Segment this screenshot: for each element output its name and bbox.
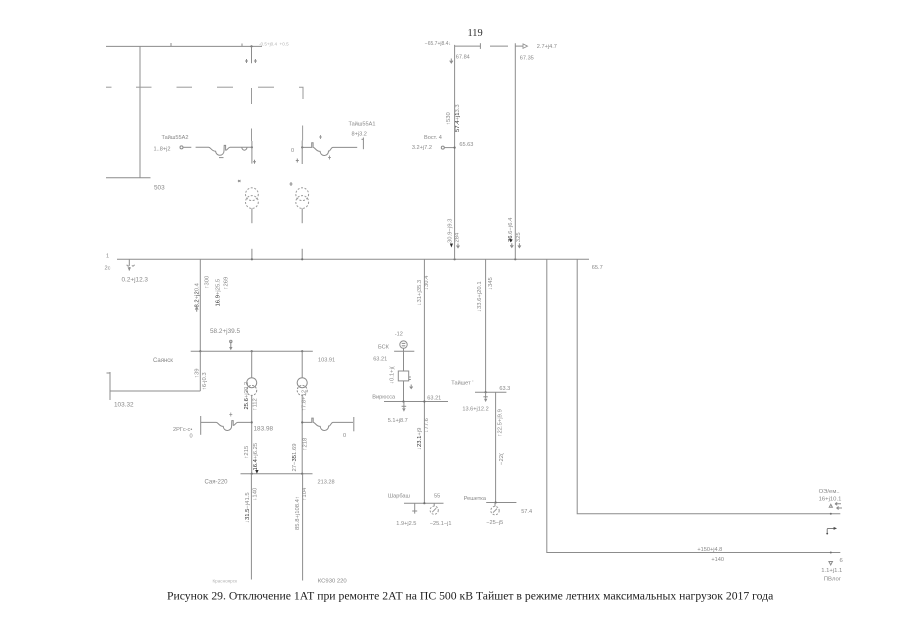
wire to Krasnoyarsk	[213, 474, 259, 584]
load on bus left	[122, 259, 149, 283]
svg-text:5.1+j8.7: 5.1+j8.7	[388, 418, 408, 424]
flow labels T2 lower	[292, 437, 308, 471]
wire 1AT middle	[251, 141, 256, 164]
svg-text:85.8+j108.4↑: 85.8+j108.4↑	[295, 496, 301, 530]
svg-text:Тайш55А2: Тайш55А2	[162, 134, 189, 141]
svg-text:103.32: 103.32	[114, 402, 134, 409]
reactor left 220	[201, 413, 251, 435]
svg-text:↑300: ↑300	[204, 275, 210, 288]
load 58.2+j39.5	[210, 328, 240, 350]
wire Vost top stub	[455, 43, 508, 49]
flow labels Sayansk line top	[195, 275, 230, 312]
svg-text:65.63: 65.63	[459, 142, 473, 148]
svg-text:Шарбаш: Шарбаш	[388, 493, 411, 499]
arrow down Vost	[450, 59, 453, 64]
svg-text:1..8+j2: 1..8+j2	[154, 147, 171, 153]
autotransformer 2AT (disconnected, dotted)	[296, 188, 309, 209]
bus Sharbash	[388, 493, 444, 504]
svg-text:↑39: ↑39	[195, 369, 201, 379]
bus Taishet	[451, 380, 510, 394]
line 119 right vertical	[514, 43, 516, 259]
svg-text:0: 0	[190, 434, 193, 440]
wire corner to 103.32	[107, 372, 201, 409]
line bus to Taishet	[477, 259, 494, 392]
svg-text:30.9−j9.3: 30.9−j9.3	[447, 218, 453, 243]
svg-text:0: 0	[343, 433, 346, 439]
junction left reactor	[251, 421, 253, 423]
svg-text:2РГс-с•: 2РГс-с•	[173, 427, 192, 433]
svg-text:Вирюсса: Вирюсса	[372, 394, 396, 400]
svg-text:6: 6	[840, 558, 844, 564]
svg-text:0: 0	[291, 148, 294, 154]
svg-text:8.2+j20.4: 8.2+j20.4	[195, 282, 201, 307]
generator Sharbash (disconnected)	[430, 503, 452, 527]
wire Taishet to Reshetka	[496, 392, 505, 502]
reactor Taish55A1	[291, 135, 363, 160]
load Viryussa	[388, 402, 408, 424]
svg-text:БСК: БСК	[378, 345, 390, 351]
line bus to Viryussa	[417, 259, 430, 503]
main 220kV bus	[105, 254, 590, 272]
flow labels T1 lower	[244, 442, 259, 470]
svg-text:↓345: ↓345	[488, 277, 494, 290]
svg-text:−22(: −22(	[499, 453, 505, 465]
svg-text:↑269: ↑269	[223, 277, 229, 290]
svg-text:↑215: ↑215	[244, 445, 250, 458]
svg-text:183.98: 183.98	[254, 426, 274, 433]
svg-text:213.28: 213.28	[318, 480, 335, 486]
flow labels Vost upper	[446, 104, 461, 132]
svg-text:↑218: ↑218	[303, 437, 309, 450]
wire Sayansk to corner	[195, 351, 209, 391]
reactor line Taish55A1 labels	[349, 121, 376, 138]
arrow symbol mid right	[826, 527, 837, 535]
arrow mark 1AT	[238, 180, 241, 182]
lower right labels	[821, 558, 843, 583]
junction right reactor	[301, 421, 303, 423]
svg-text:−25−j5: −25−j5	[486, 520, 503, 526]
flow labels Vost lower	[447, 218, 460, 248]
svg-text:Вост. 4: Вост. 4	[424, 135, 442, 141]
svg-text:↓31+j35.3: ↓31+j35.3	[417, 279, 423, 305]
bus Saya-220	[205, 470, 335, 486]
svg-text:↓30.4: ↓30.4	[424, 275, 430, 290]
svg-text:↑6-j0.3: ↑6-j0.3	[202, 372, 208, 390]
svg-text:↓0.1+j(: ↓0.1+j(	[390, 366, 396, 384]
wire right upper to OES	[577, 259, 840, 515]
svg-text:2c: 2c	[105, 266, 111, 272]
reactor Taish55A2	[180, 145, 251, 157]
wire to KS930	[295, 474, 347, 585]
svg-text:ОЭ/ем..: ОЭ/ем..	[819, 489, 840, 495]
svg-text:284: 284	[455, 232, 461, 243]
wire right lower	[547, 259, 841, 563]
svg-text:16.4+j6.25: 16.4+j6.25	[253, 442, 259, 470]
svg-text:16+j10.1: 16+j10.1	[819, 497, 842, 503]
wire T1 lower	[251, 395, 253, 473]
bus 503	[106, 177, 151, 179]
bus Reshetka	[464, 496, 532, 515]
transformer T1 circles	[247, 378, 257, 396]
svg-text:3.2+j7.2: 3.2+j7.2	[412, 145, 432, 151]
svg-text:↓31.5−j41.5: ↓31.5−j41.5	[245, 492, 251, 523]
svg-text:27−351.69: 27−351.69	[292, 443, 298, 471]
svg-text:КС930 220: КС930 220	[318, 579, 348, 585]
wire 2AT middle	[296, 141, 304, 165]
svg-text:57.4+j13.3: 57.4+j13.3	[455, 104, 461, 132]
svg-text:63.21: 63.21	[427, 395, 441, 401]
reactor 2RGs-s labels	[173, 427, 193, 440]
OES labels	[819, 489, 842, 510]
svg-text:↓140: ↓140	[252, 487, 258, 500]
svg-text:325: 325	[516, 232, 522, 243]
wire left vertical	[139, 46, 141, 177]
wire T2 lower	[301, 395, 303, 473]
arrow out top	[515, 44, 557, 62]
svg-text:Красноярск: Красноярск	[213, 579, 239, 584]
svg-text:↓23.1+j9: ↓23.1+j9	[417, 428, 423, 450]
svg-text:-0.5+j0.4 +0.5: -0.5+j0.4 +0.5	[259, 42, 289, 47]
svg-text:16.9+j25.5: 16.9+j25.5	[216, 278, 222, 306]
svg-text:↑104: ↑104	[302, 487, 308, 500]
wire 1AT dashed disconnected	[251, 88, 253, 141]
transformer branch left (Sayansk to Saya-220)	[244, 351, 259, 410]
load Sharbash	[396, 503, 417, 527]
svg-text:Рисунок 29. Отключение 1АТ при: Рисунок 29. Отключение 1АТ при ремонте 2…	[167, 590, 774, 603]
svg-text:2.7+j4.7: 2.7+j4.7	[537, 44, 557, 50]
bus 500kV top	[106, 43, 262, 48]
transformer branch right (Sayansk to Saya-220)	[302, 351, 308, 411]
svg-text:−65.7+j8.4↓: −65.7+j8.4↓	[425, 41, 451, 47]
svg-text:+150+j4.8: +150+j4.8	[697, 547, 722, 553]
svg-text:Тайш55А1: Тайш55А1	[349, 121, 376, 128]
svg-text:↓77.6: ↓77.6	[424, 417, 430, 432]
load Taishet	[462, 392, 488, 412]
svg-text:57.4: 57.4	[521, 509, 532, 515]
svg-text:Решетка: Решетка	[464, 496, 487, 502]
bus Viryussa	[372, 394, 448, 402]
svg-text:13.6+j12.2: 13.6+j12.2	[462, 406, 488, 412]
reactor line Taish55A2 labels	[154, 134, 189, 153]
line to Sayansk	[199, 259, 201, 351]
wire 1AT upper stub	[245, 46, 257, 63]
svg-text:Саянск: Саянск	[153, 358, 173, 364]
svg-text:1: 1	[106, 254, 109, 260]
svg-text:↓33.6+j20.1: ↓33.6+j20.1	[477, 281, 483, 312]
svg-text:58.2+j39.5: 58.2+j39.5	[210, 328, 240, 335]
svg-text:↑530: ↑530	[446, 112, 452, 125]
flow labels 119 line	[508, 217, 522, 248]
svg-text:Сая-220: Сая-220	[205, 480, 229, 486]
arrow mark 2AT	[290, 182, 293, 186]
svg-text:103.91: 103.91	[318, 358, 335, 364]
svg-text:503: 503	[154, 185, 165, 192]
reactor right 220	[302, 417, 354, 439]
line Vost vertical	[454, 45, 456, 259]
generator Reshetka (disconnected)	[486, 503, 503, 526]
svg-text:1.1+j1.1: 1.1+j1.1	[821, 568, 842, 574]
flow labels Viryussa-Sharbash	[417, 417, 430, 450]
svg-text:65.7: 65.7	[592, 265, 603, 271]
svg-text:67.35: 67.35	[520, 55, 534, 61]
transformer T2 circles	[297, 378, 307, 396]
svg-text:63.3: 63.3	[499, 386, 510, 392]
svg-text:↑112: ↑112	[253, 398, 259, 410]
svg-text:+140: +140	[711, 557, 724, 563]
svg-text:119: 119	[468, 28, 483, 39]
svg-text:36.6−j6.4: 36.6−j6.4	[508, 217, 514, 242]
svg-text:67.84: 67.84	[456, 55, 470, 61]
svg-text:Тайшет ’: Тайшет ’	[451, 380, 473, 387]
svg-text:ПВлог: ПВлог	[824, 577, 841, 583]
svg-text:↑22.5+j9.9: ↑22.5+j9.9	[498, 409, 504, 436]
svg-text:−25.1−j1: −25.1−j1	[430, 521, 452, 527]
svg-text:0.2+j12.3: 0.2+j12.3	[122, 277, 149, 284]
bus Sayansk	[153, 350, 335, 364]
wire 2AT lower leg	[301, 208, 303, 259]
autotransformer 1AT (disconnected, dotted)	[246, 188, 259, 209]
BSK branch	[373, 332, 414, 402]
svg-text:1.9+j2.5: 1.9+j2.5	[396, 521, 416, 527]
svg-text:63.21: 63.21	[373, 357, 387, 363]
svg-text:8+j3.2: 8+j3.2	[352, 132, 367, 138]
svg-text:25.6+j20.2: 25.6+j20.2	[244, 382, 250, 410]
svg-text:55: 55	[434, 493, 440, 499]
dashed boundary	[106, 87, 303, 140]
svg-text:-12: -12	[395, 332, 403, 338]
stub 3.2+j7.2	[412, 145, 456, 151]
wire 1AT lower leg	[251, 208, 253, 259]
